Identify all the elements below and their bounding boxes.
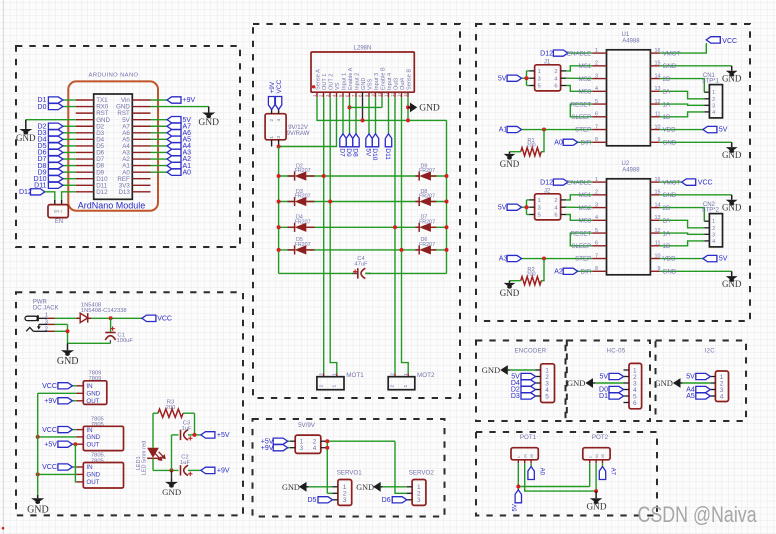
ground symbol (LED) [171, 478, 173, 482]
wire net A5 [151, 138, 168, 140]
wire to C1 [110, 318, 112, 332]
net flag A6 [167, 130, 181, 136]
svg-text:8: 8 [595, 137, 598, 143]
wire STEP net (U1) [522, 129, 593, 131]
wire flyback row D4/D7 [279, 226, 295, 228]
svg-text:1: 1 [712, 90, 715, 96]
diode D8 FR207 [419, 197, 431, 206]
junction POT GND [594, 489, 598, 493]
net flag D1 (HC-05) [609, 393, 624, 399]
net flag 5V (I2C) [696, 373, 711, 379]
junction GND rail 7805 second [36, 472, 40, 476]
net flag A4 [167, 143, 181, 149]
svg-text:1A: 1A [663, 230, 671, 237]
svg-text:Enable A: Enable A [348, 67, 354, 90]
wire J1 to MS3 [566, 86, 592, 92]
wire net D9 [63, 171, 76, 173]
stub connector pin 1 [271, 140, 273, 147]
net flag 5V (POT, rotated) [515, 490, 521, 503]
net flag +5V (7805) [58, 441, 73, 447]
dashed frame: I2C section [656, 341, 747, 422]
svg-text:3: 3 [538, 76, 541, 82]
wire to SERVO2 power [395, 441, 407, 493]
svg-text:GND: GND [567, 378, 585, 388]
pin 4 MS3 of U2 [592, 219, 606, 221]
wire R2 to GND [510, 280, 521, 282]
wire pin8 GND [362, 97, 364, 120]
svg-text:MS1: MS1 [579, 63, 592, 70]
pin 15 (Sense B) of L298N [407, 92, 409, 97]
power connector 9V/12V (9V/RAW) [265, 114, 286, 140]
svg-text:OUT: OUT [86, 479, 99, 486]
net flag 5V [167, 116, 181, 122]
wire net +9V [151, 99, 168, 101]
wire OUT2 to MOT1 [330, 97, 337, 373]
pin A1 (right) of ArdNano [132, 165, 150, 167]
wire net A6 [151, 132, 168, 134]
wire 2B to CN2 [660, 208, 705, 222]
pin REF (right) of ArdNano [132, 178, 150, 180]
wire servo power rail [326, 440, 395, 442]
svg-text:Sense A: Sense A [315, 69, 321, 90]
wire J2 to MS2 [566, 206, 592, 208]
dashed frame: servo section [253, 419, 445, 517]
pin 3 MS2 of U1 [592, 78, 606, 80]
pin 7 STEP of U1 [592, 129, 606, 131]
wire R3 left to LED [153, 412, 158, 414]
wire net D3 [63, 132, 76, 134]
wire C1 to GND rail [109, 340, 111, 343]
svg-text:VCC: VCC [698, 179, 713, 186]
svg-text:6: 6 [595, 112, 598, 118]
wire Input1 to D7 flag [342, 97, 344, 134]
svg-text:1: 1 [595, 48, 598, 54]
svg-text:FR207: FR207 [419, 242, 435, 248]
svg-text:MS3: MS3 [579, 218, 592, 225]
pin 8 (GND) of L298N [362, 92, 364, 97]
junction 9V rail / diode [277, 225, 281, 229]
svg-text:Out3: Out3 [393, 78, 399, 90]
svg-text:DIR: DIR [581, 268, 592, 275]
svg-text:SERVO2: SERVO2 [409, 469, 435, 476]
pin D13 (right) of ArdNano [132, 191, 150, 193]
svg-text:LED 5mm red: LED 5mm red [141, 441, 147, 476]
dashed frame: HC-05 section [567, 341, 650, 422]
ground symbol (L298N) [408, 106, 410, 108]
net flag VCC (7805 second) [58, 464, 73, 470]
wire D12 flag to EN jumper [45, 192, 55, 200]
wire VSS to 5V flag [368, 97, 370, 134]
wire net D7 [63, 158, 76, 160]
net flag VCC (7805 first) [58, 427, 73, 433]
wire 7805 GND to rail [38, 436, 76, 438]
svg-text:A3: A3 [499, 256, 508, 263]
pin RST (left) of ArdNano [76, 112, 94, 114]
svg-text:VCC: VCC [276, 79, 283, 93]
net flag 5V (J2) [507, 204, 521, 210]
wire GND pin15 (U1) [660, 65, 732, 67]
net flag A0 (rotated) [528, 467, 534, 480]
wire 1A to CN2 [660, 233, 705, 234]
svg-text:1: 1 [538, 69, 541, 75]
junction POT 5V [516, 485, 520, 489]
wire GND (Arduino right) [151, 106, 209, 108]
wire VMOT to VCC (U2) [660, 181, 682, 183]
junction EnableA [348, 105, 352, 109]
pin 4 MS3 of U1 [592, 90, 606, 92]
wire pin15 Sense B to GND rail [407, 97, 409, 120]
svg-text:3: 3 [595, 202, 598, 208]
wire flyback row D2/D9 [279, 175, 295, 177]
dashed frame: Arduino Nano section [16, 46, 240, 247]
svg-text:I2C: I2C [705, 348, 716, 354]
svg-text:SLEEP: SLEEP [571, 114, 591, 121]
wire +5V from 7805 OUT [72, 443, 76, 445]
pin D11 (left) of ArdNano [76, 184, 94, 186]
net flag D2 (ENCODER) [521, 386, 536, 392]
net flag A7 (rotated) [599, 467, 605, 480]
svg-text:GND: GND [27, 504, 49, 515]
svg-text:GND: GND [722, 74, 742, 84]
pin 5 RESET of U2 [592, 232, 606, 234]
IC body ARDUINO NANO [94, 94, 133, 199]
pin A2 (right) of ArdNano [132, 158, 150, 160]
wire VCC to 7809 IN [72, 385, 76, 387]
wire LED to GND/C2 [153, 469, 179, 471]
pin 9 GND of U2 [650, 270, 659, 272]
jumper EN [54, 200, 56, 205]
net flag D10 (rotated) [372, 134, 378, 147]
svg-text:U2: U2 [622, 161, 630, 167]
svg-text:Sense B: Sense B [406, 69, 412, 90]
svg-text:2: 2 [45, 327, 48, 333]
pin 14 2B of U1 [650, 78, 659, 80]
pin 12 1A of U1 [650, 103, 659, 105]
pin A5 (right) of ArdNano [132, 138, 150, 140]
pin 1 (Sense A) of L298N [316, 92, 318, 97]
net flag D4 [48, 136, 63, 142]
wire POT2 wiper to A7 [602, 463, 604, 466]
wire net D10 [63, 178, 76, 180]
ground symbol (SERVO2) [381, 486, 383, 488]
svg-text:5: 5 [595, 99, 598, 105]
svg-text:J1: J1 [544, 59, 551, 65]
svg-text:9: 9 [658, 266, 661, 272]
svg-text:OUT 1: OUT 1 [322, 74, 328, 90]
svg-text:1: 1 [712, 219, 715, 225]
svg-text:4: 4 [595, 215, 598, 221]
svg-text:+5V: +5V [44, 441, 57, 448]
svg-text:GND: GND [86, 472, 100, 479]
svg-text:A1: A1 [499, 127, 508, 134]
svg-text:100uF: 100uF [117, 338, 134, 344]
svg-text:+9V: +9V [183, 97, 196, 104]
svg-text:A4988: A4988 [622, 38, 640, 44]
wire D6 to SERVO2 [405, 499, 407, 501]
wire 1B to CN2 [660, 241, 705, 246]
connector CN2 STP* [704, 220, 709, 222]
diode D7 FR207 [419, 223, 431, 232]
wire J2 to MS3 [566, 215, 592, 221]
svg-text:VCC: VCC [157, 316, 172, 323]
wire 1A to CN1 [660, 104, 705, 105]
svg-text:13: 13 [655, 215, 661, 221]
ground symbol (regulators) [37, 495, 39, 498]
svg-text:+9V: +9V [261, 445, 274, 452]
wire 2B to CN1 [660, 79, 705, 93]
svg-text:Input 2: Input 2 [354, 73, 360, 90]
svg-text:ArdNano Module: ArdNano Module [78, 201, 146, 211]
wire C3 to +5V flag [188, 434, 201, 436]
net flag A0 [563, 139, 578, 145]
junction 9V rail [277, 145, 281, 149]
wire net A3 [151, 151, 168, 153]
pin D3 (left) of ArdNano [76, 132, 94, 134]
connector J1 [535, 65, 561, 91]
svg-text:2: 2 [712, 97, 715, 103]
diode D6 FR207 [419, 245, 431, 254]
svg-text:GND: GND [654, 378, 672, 388]
svg-text:5V: 5V [719, 127, 728, 134]
net flag VCC (rotated) [275, 97, 281, 110]
svg-text:05: 05 [600, 454, 605, 458]
svg-text:D12: D12 [540, 50, 553, 57]
net flag D5 [48, 143, 63, 149]
net flag A2 [167, 156, 181, 162]
svg-text:1: 1 [45, 313, 48, 319]
svg-text:VCC: VCC [42, 464, 57, 471]
svg-text:MOT1: MOT1 [346, 372, 364, 379]
svg-text:2: 2 [712, 226, 715, 232]
net flag D4 (ENCODER) [521, 380, 536, 386]
net flag A3 [167, 149, 181, 155]
diode D5 FR207 [295, 245, 307, 254]
wire net A1 [151, 165, 168, 167]
wire VCC to 7805 second IN [72, 466, 76, 468]
junction VCC/C1 [109, 316, 113, 320]
net flag A5 (I2C) [696, 393, 711, 399]
pin 2 MS1 of U2 [592, 194, 606, 196]
pin GND (right) of ArdNano [132, 106, 150, 108]
svg-text:10: 10 [655, 124, 661, 130]
svg-text:2: 2 [595, 190, 598, 196]
net flag A0 [167, 169, 181, 175]
svg-text:GND: GND [282, 483, 300, 492]
svg-text:2B: 2B [663, 205, 671, 212]
capacitor C1 100uF [110, 328, 114, 330]
pin 7 STEP of U2 [592, 258, 606, 260]
pin 5 RESET of U1 [592, 103, 606, 105]
svg-text:13: 13 [655, 86, 661, 92]
svg-text:47uF: 47uF [354, 262, 368, 268]
svg-text:6: 6 [554, 84, 557, 90]
svg-text:12: 12 [655, 228, 661, 234]
svg-text:STEP: STEP [575, 256, 591, 263]
svg-text:13: 13 [390, 92, 395, 97]
ground symbol (HC-05) [593, 382, 595, 384]
svg-text:2B: 2B [663, 76, 671, 83]
dashed frame: L298N motor driver section [253, 24, 460, 398]
wire connector to +9V flag [271, 110, 273, 114]
pin 12 (Input 4) of L298N [388, 92, 390, 97]
wire ENABLE net D12 (U1) [568, 52, 592, 54]
svg-text:5V/9V: 5V/9V [298, 422, 316, 429]
svg-text:3: 3 [712, 232, 715, 238]
pin D6 (left) of ArdNano [76, 151, 94, 153]
net flag A5 [167, 136, 181, 142]
svg-text:A7: A7 [610, 468, 616, 476]
pin 13 2A of U1 [650, 90, 659, 92]
wire GND to SERVO2 [383, 486, 407, 488]
svg-text:A2: A2 [554, 268, 563, 275]
pin 3V3 (right) of ArdNano [132, 184, 150, 186]
pin 3 (OUT 2) of L298N [329, 92, 331, 97]
wire 9V rail (left vertical) [278, 147, 280, 274]
svg-text:3: 3 [712, 103, 715, 109]
svg-text:FR207: FR207 [419, 168, 435, 174]
svg-text:MS3: MS3 [579, 89, 592, 96]
wire net D0 [63, 106, 76, 108]
pin 8 DIR of U2 [592, 270, 606, 272]
svg-text:U1: U1 [622, 32, 630, 38]
svg-text:A0: A0 [183, 169, 192, 176]
svg-text:IN: IN [86, 464, 92, 471]
pin D9 (left) of ArdNano [76, 171, 94, 173]
wire C4 to GND rail [365, 272, 371, 274]
svg-text:16: 16 [655, 48, 661, 54]
svg-text:FR207: FR207 [295, 194, 311, 200]
capacitor C3 1uF [180, 430, 182, 440]
wire diode to VCC flag [91, 317, 141, 319]
pin 6 SLEEP of U1 [592, 116, 606, 118]
svg-text:6: 6 [595, 241, 598, 247]
wire net A0 [151, 171, 168, 173]
svg-text:D11: D11 [384, 148, 391, 160]
pin A0 (right) of ArdNano [132, 171, 150, 173]
ground symbol (pin9 U2) [731, 271, 733, 276]
wire J2 to MS1 [566, 195, 592, 200]
pin 15 GND of U2 [650, 194, 659, 196]
svg-text:5V: 5V [365, 148, 372, 157]
svg-text:MS1: MS1 [579, 192, 592, 199]
ground symbol (SERVO1) [307, 486, 309, 488]
resistor R1 200 [521, 148, 542, 156]
svg-text:2A: 2A [663, 218, 671, 225]
net flag 5V (rotated) [366, 134, 372, 147]
sheet edge line [2, 0, 4, 534]
net flag A3 [507, 255, 521, 261]
net flag D12 (U1) [553, 50, 568, 56]
pin 4 (VS) of L298N [336, 92, 338, 97]
pin 7 (Input 2) of L298N [355, 92, 357, 97]
wire STEP to R2 [541, 259, 544, 281]
IC L298N body [311, 52, 414, 92]
svg-text:A0: A0 [554, 139, 563, 146]
svg-text:GND: GND [356, 483, 374, 492]
svg-text:05: 05 [529, 454, 534, 458]
wire RESET-SLEEP (U1) [570, 104, 592, 117]
svg-text:CSDN @Naiva: CSDN @Naiva [638, 503, 758, 527]
diode D9 FR207 [419, 171, 431, 180]
wire jack pins 2-3 to GND [55, 323, 68, 325]
svg-text:1B: 1B [663, 114, 671, 121]
wire DIR net (U2) [578, 270, 593, 272]
svg-text:5V: 5V [719, 256, 728, 263]
wire net 5V [151, 119, 168, 121]
pin 3 MS2 of U2 [592, 207, 606, 209]
wire Out3 to MOT2 [394, 97, 396, 373]
svg-text:VS: VS [335, 82, 341, 90]
junction output / diode [393, 225, 397, 229]
svg-text:1: 1 [587, 456, 592, 458]
pin 1 ENABLE of U1 [592, 52, 606, 54]
junction 9V rail / diode [277, 174, 281, 178]
net flag +9V [167, 97, 181, 103]
pin 6 SLEEP of U2 [592, 245, 606, 247]
net flag 5V (ENCODER) [521, 373, 536, 379]
svg-text:VCC: VCC [722, 38, 737, 45]
ground symbol (ENCODER) [508, 369, 510, 371]
svg-text:5V: 5V [686, 374, 695, 381]
svg-text:D1: D1 [599, 393, 608, 400]
ground symbol (Arduino left) [25, 120, 27, 129]
net flag D11 (rotated) [385, 134, 391, 147]
pin 6 (Enable A) of L298N [349, 92, 351, 97]
wire net D5 [63, 145, 76, 147]
pin 9 GND of U1 [650, 141, 659, 143]
junction servo rail pin2 [325, 439, 329, 443]
wire net A2 [151, 158, 168, 160]
svg-text:GND: GND [57, 356, 79, 367]
svg-text:6: 6 [554, 213, 557, 219]
wire VDD to 5V (U1) [660, 129, 703, 131]
wire ENABLE net D12 (U2) [568, 181, 592, 183]
wire net D11 [63, 184, 76, 186]
connector I2C [715, 371, 728, 402]
svg-text:OUT: OUT [86, 441, 99, 448]
svg-text:D3: D3 [511, 393, 520, 400]
junction GND rail / diode [445, 248, 449, 252]
wire J1 to MS2 [566, 77, 592, 79]
net flag D3 (ENCODER) [521, 393, 536, 399]
junction GND LED [170, 468, 174, 472]
svg-text:VCC: VCC [42, 427, 57, 434]
net flag VCC (U2) [682, 179, 696, 185]
wire flyback row D3/D8 [279, 201, 295, 203]
svg-text:GND: GND [663, 63, 677, 70]
ground symbol (power input) [67, 343, 69, 350]
wire GND rail (right vertical) [446, 120, 448, 273]
wire Input4 to D11 flag [388, 97, 390, 134]
net flag D0 (HC-05) [609, 386, 624, 392]
wire Out4 to MOT2 [402, 97, 409, 373]
svg-text:POT2: POT2 [592, 434, 609, 441]
svg-text:5: 5 [538, 213, 541, 219]
svg-text:5V: 5V [498, 204, 507, 211]
svg-text:Input 4: Input 4 [387, 73, 393, 90]
pin 5V (right) of ArdNano [132, 119, 150, 121]
svg-text:1uF: 1uF [180, 460, 190, 466]
svg-text:1: 1 [538, 198, 541, 204]
net flag A7 [167, 123, 181, 129]
junction servo rail pin4 [325, 446, 329, 450]
svg-text:+5V: +5V [217, 432, 230, 439]
connector DC jack [25, 316, 38, 320]
connector HC-05 [629, 363, 642, 408]
pin 11 (Enable B) of L298N [381, 92, 383, 97]
net flag D2 [48, 123, 63, 129]
svg-text:MOT2: MOT2 [417, 372, 435, 379]
